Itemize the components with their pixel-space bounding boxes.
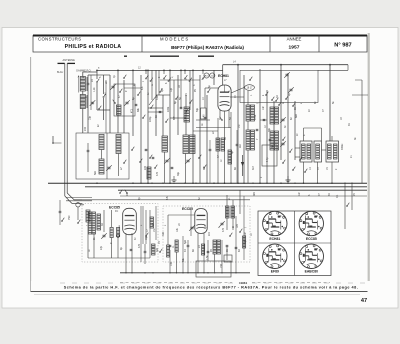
tube U1 pin leads (224, 111, 226, 183)
switch S8 (77, 222, 78, 223)
coil L1 core arrow (78, 76, 80, 93)
resistor R34 (243, 236, 246, 248)
switch S1f in box (119, 91, 120, 92)
switch S3d (175, 98, 176, 99)
svg-text:BLAU: BLAU (57, 71, 64, 74)
switch S6c (282, 162, 283, 163)
wire column x106 (105, 80, 107, 133)
svg-text:4k7: 4k7 (252, 165, 255, 170)
socket chart frame (258, 211, 331, 276)
tube U2 pin leads (125, 233, 127, 258)
capacitor C6 (152, 156, 155, 158)
wire stack mid (247, 121, 249, 130)
wire bus drop x200 (199, 75, 201, 183)
wire drop x159 (158, 70, 160, 95)
wire FM block bottom (88, 257, 150, 259)
wire right edge link2 (355, 79, 362, 81)
tube U3 pin leads (197, 234, 199, 273)
wire link y108 (148, 107, 163, 109)
capacitor C8 (256, 128, 259, 130)
svg-text:18p: 18p (145, 235, 148, 240)
node dot B (117, 70, 119, 72)
antenna feeder wire left (64, 63, 66, 196)
wire antenna coil mid (82, 91, 84, 95)
switch S2a (265, 94, 266, 95)
oscillator box B outline (281, 70, 318, 102)
svg-text:1M: 1M (153, 229, 156, 232)
wire C1 (87, 75, 89, 83)
connector stub J1 (52, 136, 54, 143)
svg-text:240: 240 (84, 126, 87, 131)
wire input left (59, 200, 61, 211)
switch S1a (96, 81, 97, 82)
svg-text:22n: 22n (244, 231, 247, 236)
capacitor C14 (226, 244, 229, 246)
wire drop x190 (189, 70, 191, 110)
wire link y118 (170, 117, 186, 119)
small circle input (76, 203, 80, 207)
ground symbol G1 (287, 176, 289, 180)
trimmer CT8 (102, 234, 105, 236)
wire drop x210b (209, 140, 211, 149)
capacitor C24 (209, 148, 212, 150)
switch S1b (103, 96, 104, 97)
FM coil L12 (152, 244, 156, 255)
resistor stack R11 (251, 105, 255, 121)
dot row on lower rail (125, 272, 126, 273)
coil L4 (116, 135, 121, 154)
coil assembly box divider (106, 133, 108, 179)
svg-text:1,2k: 1,2k (93, 87, 96, 92)
tube U1 internal cathode line (224, 85, 226, 92)
wire L5 link (101, 150, 103, 160)
wire bus drop x170 (169, 70, 171, 183)
wire column x118 (117, 70, 119, 133)
switch S3a (137, 94, 138, 95)
hanging switch H3 (184, 70, 186, 74)
wire stack top (247, 91, 249, 105)
svg-text:100: 100 (170, 261, 173, 266)
ground symbol G2 (173, 176, 175, 180)
trimmer CT3 top right (285, 73, 288, 75)
tube socket EF89 internal electrodes (269, 251, 276, 253)
wire bus drop x186 (185, 95, 187, 135)
trimmer CT12 (281, 142, 284, 144)
IF transformer T3 box (326, 141, 339, 162)
wire chassis bus 3 (118, 189, 367, 191)
wire right column from rail (329, 65, 331, 141)
tube socket EF89 pin pads (266, 254, 268, 257)
svg-text:16 17: 16 17 (247, 87, 254, 90)
resistor R23 (213, 240, 217, 254)
wire column x124 (123, 80, 125, 133)
svg-text:5p6: 5p6 (184, 239, 187, 244)
switch bank box outline (114, 84, 135, 116)
FM second dashed box (163, 206, 250, 262)
svg-text:PHILIPS et RADIOLA: PHILIPS et RADIOLA (65, 44, 122, 50)
coil L6b lower (147, 167, 151, 179)
svg-text:0k5: 0k5 (253, 191, 256, 196)
trimmer CT10 (220, 222, 223, 224)
resistor R20 (110, 228, 113, 238)
wire lower rail (120, 272, 250, 274)
switch S12d (203, 167, 204, 168)
capacitor C27 (171, 166, 174, 168)
trimmer CT2 (111, 85, 114, 87)
switch S12b (154, 167, 155, 168)
T3 primary coil (328, 144, 332, 159)
wire FM rail 2 (82, 199, 250, 201)
wire bus drop x214 (213, 70, 215, 85)
svg-text:470k: 470k (254, 114, 257, 120)
socket chart horizontal divider (258, 242, 331, 244)
switch S4c (139, 161, 140, 162)
wire lower drop x236 (235, 216, 237, 273)
tube socket ECC85 rim pins (320, 227, 322, 229)
resistor R31 (221, 138, 225, 151)
svg-text:150: 150 (220, 263, 223, 268)
lower dashed rail (120, 282, 232, 284)
svg-text:50p: 50p (196, 107, 199, 112)
svg-text:220k: 220k (167, 106, 170, 112)
svg-text:1957: 1957 (289, 45, 300, 51)
antenna coil L2 (80, 95, 85, 109)
FM coil L9a (88, 212, 92, 234)
wire FM box col x146 (145, 210, 147, 244)
hanging switch H2 (163, 70, 165, 74)
svg-text:12n: 12n (298, 191, 301, 196)
wire bus drop x141 (140, 75, 142, 183)
svg-text:ECC85: ECC85 (182, 207, 193, 211)
switch S6a (282, 139, 283, 140)
coil L7 (183, 135, 189, 154)
switch S5a (271, 99, 272, 100)
wire lower drop x222 (221, 240, 223, 273)
svg-text:4p7: 4p7 (161, 87, 164, 92)
wire link y112 (148, 111, 163, 113)
switch S3c (159, 91, 160, 92)
wire right col x274 (273, 101, 275, 183)
switch S12a (149, 157, 150, 158)
wire antenna coil bottom (82, 109, 84, 134)
input capacitor C40 (59, 210, 62, 212)
switch S11d (207, 91, 208, 92)
T1 secondary coil (307, 144, 311, 159)
wire right edge link (352, 94, 368, 96)
diode D1 (242, 155, 244, 176)
switch S1d (114, 102, 115, 103)
switch S3b (150, 107, 151, 108)
wire link y131 (193, 130, 218, 132)
tube socket ECH81 rim pins (284, 227, 286, 229)
IF transformer T2 box (314, 141, 322, 162)
svg-text:Schéma de la partie H.F. et ch: Schéma de la partie H.F. et changement d… (64, 286, 359, 290)
svg-text:4-7p: 4-7p (267, 157, 269, 162)
antenna coil L1 (80, 77, 85, 92)
wire lower drop x150 (149, 210, 151, 258)
tube socket EABC80 circle (299, 244, 323, 268)
wire right edge drop (361, 80, 363, 183)
wire T1 down (303, 162, 305, 183)
switch S7 on bus (119, 192, 120, 193)
capacitor C34 (130, 248, 133, 250)
switch S10 (346, 205, 347, 206)
tube socket ECC85 pin pads (303, 221, 305, 224)
capacitor C30 (152, 246, 155, 248)
trimmer CT2b inside box (125, 101, 128, 103)
svg-text:10n: 10n (262, 105, 265, 110)
wire chassis bus 2 (85, 186, 367, 188)
sheet top edge dark dash 1 (124, 55, 127, 57)
FM input coil L8 (86, 210, 90, 222)
switch S6d (292, 169, 293, 170)
trimmer CT5 (107, 166, 110, 168)
switch S2c (249, 79, 250, 80)
capacitor C29 (269, 138, 272, 140)
tube socket ECH81 circle (263, 211, 287, 235)
wire right col x260 (259, 69, 261, 183)
wire C5 (87, 143, 89, 150)
header divider col2/col3 (269, 36, 271, 53)
coil L3 (99, 135, 104, 150)
switch S11a (142, 117, 143, 118)
switch S1c (98, 108, 99, 109)
wire link y120b (196, 119, 210, 121)
capacitor C23 (204, 116, 207, 118)
resistor stack R13 (251, 130, 255, 150)
resistor stack R10 (246, 105, 250, 121)
svg-text:12p: 12p (170, 87, 173, 92)
wire top rail right (223, 64, 348, 66)
wire drop x218 (217, 118, 219, 183)
wire right col x267 (266, 90, 268, 183)
switch S11c (185, 111, 186, 112)
coil L5 (99, 159, 104, 174)
trimmer CT4 in oscillator box (289, 88, 292, 90)
svg-text:27p: 27p (100, 245, 103, 250)
tube U2 ECC85 left triode (123, 208, 137, 234)
capacitor C5 (87, 149, 90, 151)
sheet left border line (30, 57, 32, 291)
wire down right cluster (226, 247, 228, 260)
svg-text:2k2: 2k2 (239, 143, 242, 148)
component value labels (68, 75, 357, 268)
sheet inner right edge shading (368, 33, 370, 281)
capacitor C26 (145, 148, 148, 150)
switch S13c (239, 231, 240, 232)
FM coil L10 (167, 245, 170, 257)
svg-text:33p: 33p (244, 239, 247, 244)
switch S14 (61, 220, 62, 221)
filter block box (196, 261, 231, 277)
wire L6 down (164, 152, 166, 183)
wire FM rail top (120, 195, 367, 197)
antenna coil L2 core (86, 95, 88, 108)
wire T1 top link (303, 128, 305, 141)
coil stack K4 (275, 131, 279, 150)
wire drop x237b (236, 130, 238, 144)
antenna dipole right bar (67, 62, 75, 64)
hanging switch H4 (202, 70, 204, 74)
svg-text:MODELES: MODELES (160, 36, 189, 41)
resistor R32 (228, 150, 232, 164)
svg-text:FC: FC (115, 210, 118, 213)
switch S13b (159, 251, 160, 252)
svg-text:39p: 39p (268, 127, 271, 132)
svg-text:B6F77 (Philips) RA637A (R: B6F77 (Philips) RA637A (Radiola) (171, 45, 244, 50)
svg-text:330: 330 (162, 231, 165, 236)
wire lower drop x208 (207, 240, 209, 261)
switch S12c (198, 157, 199, 158)
wire T3 top (331, 136, 333, 141)
wire FM box right column (140, 206, 142, 262)
wire link y75 (95, 74, 110, 76)
wire feeder pair into box (66, 197, 92, 199)
caption underline echo (34, 294, 360, 296)
wire rail y70.3 right (318, 69, 348, 71)
svg-text:ECC85: ECC85 (109, 206, 120, 210)
switch S11e (221, 119, 222, 120)
tube socket EF89 rim pins (284, 260, 286, 262)
switch S6f (304, 171, 305, 172)
svg-text:m: m (282, 102, 285, 104)
svg-text:39p: 39p (177, 171, 180, 176)
switch S4b (131, 149, 132, 150)
svg-text:5k6: 5k6 (94, 170, 97, 175)
svg-text:EABC80: EABC80 (305, 269, 318, 273)
svg-text:1,5k: 1,5k (206, 255, 209, 260)
trimmer arrow mid (149, 95, 157, 105)
wire link y80 mid (160, 79, 200, 81)
pin oval 16 17 (245, 85, 255, 91)
svg-text:EF89: EF89 (271, 269, 279, 273)
switch S6b (289, 151, 290, 152)
FM tuner dashed box (82, 204, 158, 263)
svg-text:75Ω: 75Ω (68, 215, 71, 220)
node dot rail right (329, 64, 331, 66)
wire bus drop x244 (243, 75, 245, 183)
switch S5b (278, 104, 279, 105)
tube pin circles 10 11 (204, 73, 209, 78)
wire bus drop x163 (162, 95, 164, 136)
switch S2b (275, 100, 276, 101)
T3 secondary coil (333, 144, 337, 159)
wire L7 down (185, 154, 187, 184)
vertical wire x352 (351, 183, 353, 210)
svg-text:2n2: 2n2 (208, 231, 211, 236)
wire right cluster to rail (239, 190, 241, 214)
wire top rail mid (97, 69, 223, 71)
wire T3 down (331, 162, 333, 183)
wire drop x152 (151, 70, 153, 100)
capacitor C32 (207, 250, 210, 252)
svg-text:15p: 15p (89, 115, 92, 120)
tube socket ECC85 internal electrodes (305, 218, 312, 220)
wire right col x295 (294, 101, 296, 160)
wire bus drop x207 (206, 95, 208, 183)
svg-text:220p: 220p (149, 116, 152, 122)
trimmer CT9 (190, 226, 193, 228)
trimmer CT11 (281, 118, 284, 120)
wire stack bottom (247, 150, 249, 183)
switch S5d (292, 105, 293, 106)
IF transformer T1 box (300, 141, 312, 162)
coil L13 in box (117, 105, 122, 115)
switch S11b (165, 121, 166, 122)
svg-text:3p9: 3p9 (156, 247, 159, 252)
resistor R21 (117, 228, 120, 237)
svg-text:N° 987: N° 987 (334, 43, 351, 49)
switch S6e (299, 159, 300, 160)
tube socket ECH81 internal electrodes (269, 218, 276, 220)
svg-text:220: 220 (144, 165, 147, 170)
wire lower drop x244 (243, 196, 245, 260)
wire bus drop x178 (177, 75, 179, 135)
resistor R22 (175, 240, 178, 252)
wire T2 down (317, 162, 319, 183)
switch S5c (285, 98, 286, 99)
svg-text:ECH81: ECH81 (218, 74, 229, 78)
wire input circle (80, 204, 84, 206)
op tube U1 ECH81 (218, 85, 231, 111)
broken line above caption (60, 282, 365, 284)
wire link y97 (230, 96, 244, 98)
component small box (224, 255, 232, 262)
svg-text:ECH81: ECH81 (269, 237, 280, 241)
capacitor C28 (263, 118, 266, 120)
coil L6 (162, 136, 168, 152)
svg-text:465kc: 465kc (341, 143, 344, 150)
FM coil L9c (97, 214, 101, 230)
small box 49 (201, 108, 207, 119)
wire switch column 1 (96, 70, 98, 79)
switch S13a (145, 235, 146, 236)
wire T2 top (321, 128, 323, 141)
dot row on bus (140, 183, 141, 184)
resistor R26 (231, 206, 235, 218)
wire lower drop x170 (169, 250, 171, 273)
wire bus drop x148 (147, 70, 149, 183)
lower dashed rail right part (252, 282, 330, 284)
FM coil L9b (92, 212, 96, 234)
coil stack K1 (270, 107, 274, 124)
wire pin oval leader (231, 88, 244, 94)
header divider col1/col2 (141, 36, 143, 53)
svg-text:470: 470 (222, 227, 225, 232)
capacitor C20 (135, 103, 138, 105)
wire lower drop x143 (142, 206, 144, 244)
wire link y127 tube grid (196, 127, 231, 129)
socket chart vertical divider (294, 211, 296, 276)
wire column x91 (90, 75, 92, 110)
resistor stack R12 (246, 130, 250, 150)
wire right col x281 (280, 65, 282, 160)
wire drop x174 (173, 80, 175, 120)
wire drop x231 (230, 112, 232, 183)
wire link y88 (124, 87, 141, 89)
svg-text:ECC85: ECC85 (306, 237, 317, 241)
node dot A (96, 70, 98, 72)
oscillator box A outline (240, 70, 281, 102)
wire bus drop x193 (192, 70, 194, 183)
resistor R30 (216, 138, 220, 151)
svg-text:1k5: 1k5 (236, 223, 239, 228)
tube socket EABC80 rim pins (320, 260, 322, 262)
wire bus drop x238 (237, 65, 239, 184)
svg-text:6k8: 6k8 (295, 113, 298, 118)
T2 coil (316, 144, 320, 159)
svg-text:47: 47 (361, 298, 367, 304)
